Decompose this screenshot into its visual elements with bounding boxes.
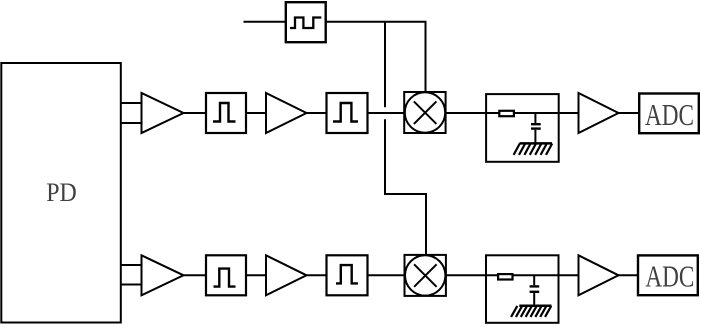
- wire F1 to A2: [246, 112, 266, 114]
- capacitor C1: [531, 124, 541, 128]
- wire F2 to mixer M1: [368, 112, 405, 114]
- mixer M1: [404, 92, 445, 133]
- low-pass filter block LPF1: [486, 94, 559, 162]
- wire A1 to F1: [184, 112, 207, 114]
- wire LPF2 to A6: [559, 274, 579, 276]
- wire LO branch down (crossover gap at top chain): [384, 22, 386, 107]
- amplifier A4: [142, 255, 184, 295]
- wire F3 to A5: [246, 274, 266, 276]
- pulse filter F1: [206, 93, 246, 133]
- wire A6 to ADC2: [619, 274, 639, 276]
- wire LO branch lower segment to bottom mixer: [385, 119, 426, 255]
- resistor R1: [499, 111, 514, 116]
- converter ADC1: [639, 94, 699, 134]
- square-wave generator LO: [286, 2, 326, 42]
- wire LPF1 to A3: [559, 112, 579, 114]
- wire A3 to ADC1: [619, 112, 640, 114]
- amplifier A2: [266, 93, 307, 133]
- ground GND1: [514, 143, 553, 155]
- svg-text:PD: PD: [46, 178, 77, 207]
- svg-text:ADC: ADC: [645, 97, 694, 132]
- wire LO input: [244, 21, 287, 23]
- ground GND2: [511, 306, 551, 317]
- photodetector PD: [1, 63, 121, 323]
- amplifier A1: [142, 93, 184, 133]
- wire A5 to F4: [307, 274, 327, 276]
- capacitor C2: [530, 286, 540, 291]
- wire PD to A4 (double): [120, 265, 142, 285]
- wire M2 to LPF2 and through: [446, 274, 559, 276]
- wire LO output to top mixer: [326, 22, 426, 93]
- converter ADC2: [638, 255, 698, 295]
- wire R1 to C1 node: [534, 113, 536, 123]
- pulse filter F3: [206, 255, 246, 295]
- wire F4 to mixer M2: [368, 274, 405, 276]
- wire R2 to C2 node: [533, 275, 535, 285]
- low-pass filter block LPF2: [486, 255, 559, 322]
- amplifier A3: [579, 93, 619, 133]
- amplifier A5: [266, 255, 307, 295]
- amplifier A6: [579, 255, 619, 295]
- wire PD to A1 (double): [120, 103, 142, 123]
- wire M1 to LPF1 and through: [446, 112, 559, 114]
- pulse filter F2: [327, 93, 368, 133]
- wire C1 to ground: [534, 130, 536, 144]
- resistor R2: [498, 274, 512, 279]
- pulse filter F4: [327, 255, 368, 295]
- svg-text:ADC: ADC: [645, 259, 694, 294]
- wire A2 to F2: [307, 112, 327, 114]
- wire C2 to ground: [533, 293, 535, 306]
- mixer M2: [405, 255, 446, 296]
- wire A4 to F3: [184, 274, 207, 276]
